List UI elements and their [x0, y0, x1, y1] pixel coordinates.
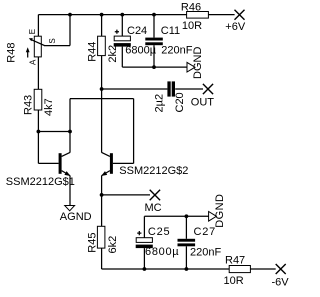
svg-text:R45: R45 — [86, 233, 98, 253]
svg-text:10R: 10R — [182, 20, 202, 32]
svg-text:R48: R48 — [6, 43, 18, 63]
svg-text:C11: C11 — [161, 25, 180, 37]
svg-text:10R: 10R — [224, 275, 244, 287]
svg-text:4k7: 4k7 — [43, 98, 55, 116]
svg-text:E: E — [28, 29, 37, 34]
svg-text:220nF: 220nF — [161, 44, 192, 56]
svg-text:6k2: 6k2 — [107, 236, 119, 254]
svg-text:SSM2212G$1: SSM2212G$1 — [6, 176, 75, 188]
svg-text:-6V: -6V — [272, 276, 290, 288]
svg-text:R43: R43 — [23, 95, 35, 115]
svg-text:C20: C20 — [174, 92, 186, 112]
svg-text:DGND: DGND — [192, 47, 204, 79]
svg-text:R47: R47 — [225, 255, 245, 267]
svg-text:+6V: +6V — [225, 21, 246, 33]
svg-text:C24: C24 — [127, 25, 147, 37]
svg-text:AGND: AGND — [60, 211, 92, 223]
svg-text:DGND: DGND — [214, 194, 226, 228]
svg-text:2k2: 2k2 — [107, 45, 119, 63]
svg-text:6800µ: 6800µ — [125, 44, 156, 56]
svg-text:S: S — [48, 38, 57, 43]
svg-text:220nF: 220nF — [190, 246, 221, 258]
svg-text:2µ2: 2µ2 — [154, 94, 166, 113]
svg-text:A: A — [29, 59, 38, 65]
svg-text:6800µ: 6800µ — [145, 246, 179, 258]
svg-text:MC: MC — [145, 202, 162, 214]
svg-text:R44: R44 — [87, 42, 99, 62]
svg-text:C25: C25 — [148, 226, 171, 238]
svg-text:OUT: OUT — [191, 96, 215, 108]
svg-text:C27: C27 — [194, 226, 217, 238]
svg-text:SSM2212G$2: SSM2212G$2 — [119, 165, 188, 177]
svg-text:R46: R46 — [181, 1, 201, 13]
